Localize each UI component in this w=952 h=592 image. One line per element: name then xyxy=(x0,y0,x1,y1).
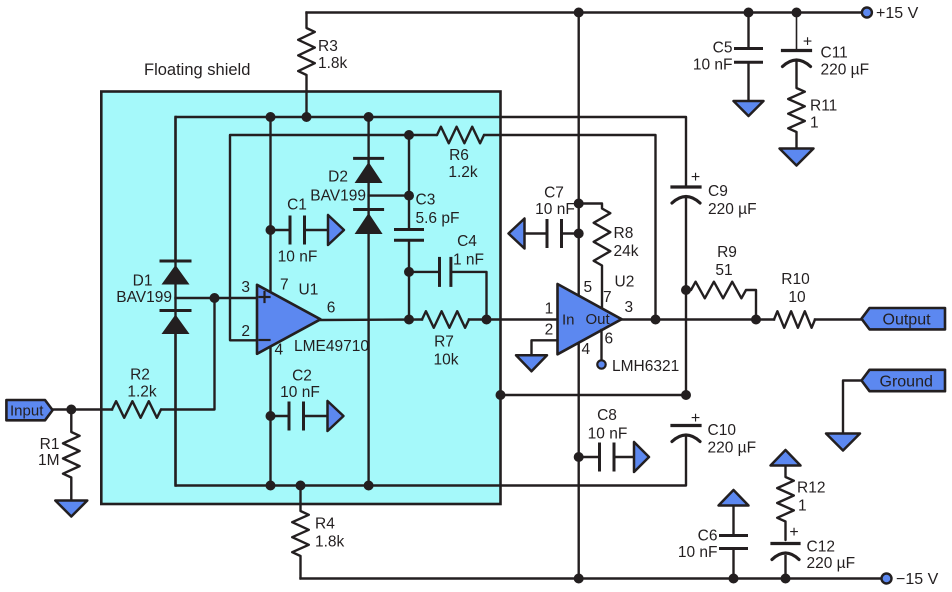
svg-text:+: + xyxy=(691,169,700,186)
svg-text:5.6 pF: 5.6 pF xyxy=(416,210,460,227)
svg-text:1.2k: 1.2k xyxy=(448,164,478,181)
wire R2 to U1 pin3 xyxy=(161,298,215,410)
capacitor C11 220uF xyxy=(796,13,798,51)
resistor R12 1 xyxy=(777,466,794,541)
node rail1 R3 tap xyxy=(302,112,312,122)
svg-text:C2: C2 xyxy=(292,368,312,385)
resistor R7 10k xyxy=(422,311,469,328)
svg-text:U1: U1 xyxy=(299,282,319,299)
svg-text:R6: R6 xyxy=(449,147,469,164)
svg-text:In: In xyxy=(562,312,575,329)
svg-text:1.8k: 1.8k xyxy=(318,55,348,72)
svg-text:220 µF: 220 µF xyxy=(708,440,757,457)
svg-text:1.8k: 1.8k xyxy=(315,534,345,551)
node C5 tap xyxy=(744,8,754,18)
tag Output xyxy=(862,308,946,329)
svg-text:Ground: Ground xyxy=(880,374,933,391)
node C6 tap xyxy=(729,574,739,584)
node R9 right tap xyxy=(751,315,761,325)
capacitor C10 220uF xyxy=(672,424,700,427)
wire +15V top rail xyxy=(307,11,863,13)
svg-text:1: 1 xyxy=(545,301,554,318)
floating shield box xyxy=(101,92,500,505)
svg-text:C8: C8 xyxy=(597,407,617,424)
wire input to R2 xyxy=(53,408,112,410)
svg-text:BAV199: BAV199 xyxy=(310,188,366,205)
svg-text:C7: C7 xyxy=(544,185,564,202)
node rail1 C1 tap xyxy=(266,112,276,122)
svg-text:10 nF: 10 nF xyxy=(693,57,733,74)
svg-text:C11: C11 xyxy=(821,45,848,62)
svg-text:7: 7 xyxy=(280,276,289,293)
svg-text:R12: R12 xyxy=(797,480,825,497)
diode D2 BAV199 xyxy=(355,157,383,160)
terminal +15 V xyxy=(862,8,872,18)
wire rail2 to output node (feedback) xyxy=(484,135,656,320)
svg-text:D1: D1 xyxy=(133,273,153,290)
buffer U2 LMH6321 xyxy=(558,284,622,354)
svg-text:R7: R7 xyxy=(434,334,454,351)
wire U2 out to R10 xyxy=(622,318,774,320)
svg-text:+15 V: +15 V xyxy=(876,5,919,22)
svg-text:R2: R2 xyxy=(130,367,150,384)
svg-text:7: 7 xyxy=(603,289,612,306)
node C2 tap xyxy=(266,411,276,421)
capacitor C7 10 nF xyxy=(525,232,548,234)
svg-text:+: + xyxy=(789,524,798,541)
node C1 tap xyxy=(266,225,276,235)
node rail2 C3 tap xyxy=(404,130,414,140)
wire shield inner rail top (V+ net) xyxy=(176,117,687,261)
node C10 top xyxy=(681,390,691,400)
capacitor C3 5.6 pF xyxy=(408,135,410,230)
node R7 right xyxy=(482,315,492,325)
svg-text:220 µF: 220 µF xyxy=(821,62,870,79)
resistor R3 1.8k xyxy=(298,13,315,118)
svg-text:−15 V: −15 V xyxy=(896,571,939,588)
svg-text:LME49710: LME49710 xyxy=(294,338,369,355)
svg-text:6: 6 xyxy=(327,300,336,317)
wire D2 mid to C3 column xyxy=(369,194,409,196)
svg-text:C5: C5 xyxy=(713,40,733,57)
ground below C5 xyxy=(734,101,764,116)
node rail1 D2 tap xyxy=(364,112,374,122)
svg-text:1 nF: 1 nF xyxy=(453,252,484,269)
node R7 left xyxy=(404,315,414,325)
svg-text:5: 5 xyxy=(584,279,593,296)
svg-text:+: + xyxy=(691,410,700,427)
op-amp U1 LME49710 xyxy=(257,285,321,354)
svg-text:Input: Input xyxy=(10,403,44,420)
wire R7 to U2 input xyxy=(469,318,558,320)
node C4 left xyxy=(404,267,414,277)
node supply line bottom xyxy=(574,574,584,584)
svg-text:10 nF: 10 nF xyxy=(588,426,628,443)
shield arrow at C7 (left) xyxy=(509,219,525,249)
node C8 tap xyxy=(574,452,584,462)
capacitor C2 10 nF xyxy=(271,415,290,417)
shield arrow at C1 xyxy=(328,215,344,245)
wire shield inner rail bottom (V- net) xyxy=(176,334,687,486)
svg-text:2: 2 xyxy=(241,323,250,340)
shield arrow at C2 xyxy=(328,401,344,431)
svg-text:C10: C10 xyxy=(708,422,737,439)
wire U2 pin2 to ground xyxy=(532,340,558,355)
node supply line top xyxy=(574,8,584,18)
svg-text:4: 4 xyxy=(582,341,591,358)
ground below R1 xyxy=(55,501,87,517)
terminal -15 V xyxy=(882,574,892,584)
node input junction xyxy=(66,405,76,415)
node C7 tap xyxy=(574,229,584,239)
svg-text:R9: R9 xyxy=(717,244,737,261)
node pin3 junction xyxy=(210,293,220,303)
svg-text:10: 10 xyxy=(788,289,806,306)
svg-text:2: 2 xyxy=(545,322,554,339)
wire D2 column xyxy=(367,117,369,486)
capacitor C4 1 nF xyxy=(409,271,440,273)
svg-text:1.2k: 1.2k xyxy=(127,384,157,401)
svg-text:LMH6321: LMH6321 xyxy=(612,358,679,375)
svg-text:220 µF: 220 µF xyxy=(708,201,757,218)
capacitor C5 10 nF xyxy=(747,13,749,49)
shield arrow above C6 xyxy=(719,490,749,506)
svg-text:10 nF: 10 nF xyxy=(278,249,318,266)
shield arrow at C8 xyxy=(634,442,649,472)
ground at U2 pin2 xyxy=(516,355,547,371)
resistor R4 1.8k xyxy=(292,486,309,579)
ground below ground tag xyxy=(826,434,860,451)
capacitor C6 10 nF xyxy=(732,506,734,536)
node rail3 D2 tap xyxy=(364,481,374,491)
wire D1 mid to U1 pin 3 xyxy=(176,297,258,299)
svg-text:6: 6 xyxy=(605,331,614,348)
capacitor C12 220uF xyxy=(772,542,799,545)
svg-text:+: + xyxy=(803,34,812,51)
node rail3 C2 tap xyxy=(266,481,276,491)
node C11 tap xyxy=(792,8,802,18)
svg-text:BAV199: BAV199 xyxy=(116,289,172,306)
svg-text:4: 4 xyxy=(275,341,284,358)
node shield tap xyxy=(496,390,506,400)
node rail3 R4 tap xyxy=(296,481,306,491)
svg-text:C1: C1 xyxy=(287,197,307,214)
wire U2 pin6 xyxy=(600,330,602,361)
node R9 left xyxy=(681,285,691,295)
tag Input xyxy=(6,400,52,420)
wire U1 pin7 column xyxy=(269,117,271,294)
node R8 tap xyxy=(574,199,584,209)
capacitor C9 220uF xyxy=(672,185,700,188)
svg-text:C9: C9 xyxy=(708,183,728,200)
node D2 mid junction xyxy=(404,191,414,201)
wire -15V bottom rail xyxy=(301,577,882,579)
node C12 tap xyxy=(781,574,791,584)
wire D1 column xyxy=(174,117,176,486)
resistor R2 1.2k xyxy=(112,401,161,418)
resistor R6 1.2k xyxy=(437,127,484,144)
svg-text:10 nF: 10 nF xyxy=(535,201,575,218)
resistor R10 10 xyxy=(774,311,815,328)
svg-text:3: 3 xyxy=(241,279,250,296)
wire U1 pin4 column xyxy=(269,347,271,486)
svg-text:R1: R1 xyxy=(40,436,60,453)
svg-text:U2: U2 xyxy=(615,274,635,291)
svg-text:3: 3 xyxy=(625,299,634,316)
svg-text:24k: 24k xyxy=(614,243,639,260)
shield arrow above R12 xyxy=(771,450,801,466)
wire ground tag xyxy=(843,381,862,434)
wire main vertical supply line x=578.7 xyxy=(578,13,580,579)
resistor R8 24k xyxy=(579,204,611,309)
capacitor C1 10 nF xyxy=(271,229,291,231)
wire shield to C10 node xyxy=(501,394,687,396)
diode D1 BAV199 xyxy=(161,260,190,263)
svg-text:220 µF: 220 µF xyxy=(807,555,856,572)
resistor R11 1 xyxy=(788,60,805,149)
svg-text:C12: C12 xyxy=(807,539,835,556)
svg-text:R3: R3 xyxy=(318,38,338,55)
wire R10 to output tag xyxy=(815,318,862,320)
svg-text:R8: R8 xyxy=(614,225,634,242)
svg-text:C3: C3 xyxy=(416,192,436,209)
svg-text:51: 51 xyxy=(715,262,732,279)
svg-text:1: 1 xyxy=(810,115,819,132)
capacitor C8 10 nF xyxy=(579,456,600,458)
node R6 feedback tap xyxy=(651,315,661,325)
svg-text:C6: C6 xyxy=(698,528,718,545)
svg-text:1M: 1M xyxy=(38,452,60,469)
svg-text:Floating shield: Floating shield xyxy=(144,61,250,79)
svg-text:10k: 10k xyxy=(434,352,459,369)
wire shield inner rail 2 (inverting input net) xyxy=(230,135,437,340)
tag Ground xyxy=(862,370,946,391)
wire U1 out to R7 xyxy=(321,318,422,321)
svg-text:R11: R11 xyxy=(810,98,837,115)
svg-text:D2: D2 xyxy=(328,169,348,186)
svg-text:10 nF: 10 nF xyxy=(280,384,320,401)
terminal U2 pin6 xyxy=(597,360,605,368)
svg-text:10 nF: 10 nF xyxy=(678,544,718,561)
resistor R1 1M xyxy=(63,410,80,501)
svg-text:1: 1 xyxy=(798,498,807,515)
svg-text:C4: C4 xyxy=(457,233,477,250)
resistor R9 51 xyxy=(686,282,756,320)
svg-text:Output: Output xyxy=(883,312,932,329)
svg-text:R4: R4 xyxy=(315,516,335,533)
svg-text:Out: Out xyxy=(586,311,611,328)
svg-text:R10: R10 xyxy=(781,271,810,288)
ground below R11 xyxy=(780,149,814,166)
